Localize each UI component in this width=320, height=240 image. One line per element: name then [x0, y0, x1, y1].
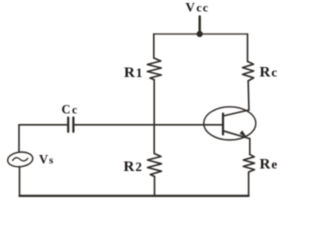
svg-text:R1: R1	[124, 65, 142, 81]
svg-text:R2: R2	[124, 159, 142, 175]
svg-text:Rc: Rc	[260, 65, 278, 81]
svg-text:Re: Re	[260, 157, 278, 173]
svg-text:Cc: Cc	[62, 103, 78, 117]
svg-text:Vs: Vs	[39, 153, 54, 167]
svg-text:Vcc: Vcc	[186, 0, 210, 14]
